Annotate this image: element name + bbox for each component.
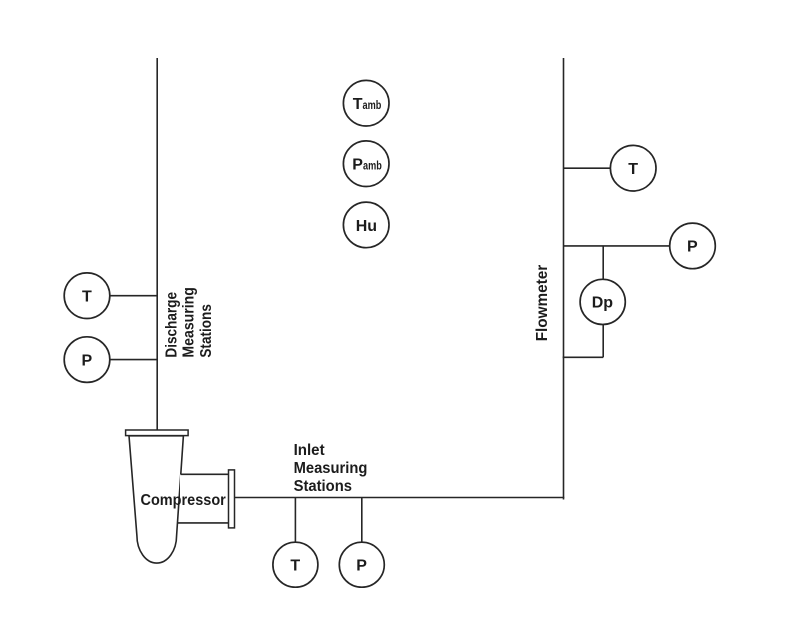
label Inlet Measuring Stations — [294, 442, 368, 495]
svg-text:P: P — [687, 239, 698, 256]
svg-text:Measuring: Measuring — [294, 460, 368, 477]
label Discharge Measuring Stations (rotated) — [163, 287, 215, 358]
wire: inlet pipe (bottom horizontal) — [235, 497, 565, 499]
wire: riser pipe (right vertical) — [563, 58, 565, 500]
svg-text:Measuring: Measuring — [181, 287, 198, 358]
wire: T to discharge pipe — [109, 295, 157, 297]
compressor inlet flange (top) — [126, 430, 189, 436]
svg-text:Stations: Stations — [294, 478, 352, 495]
svg-text:Inlet: Inlet — [294, 442, 326, 459]
wire: Dp lower lead (vertical) — [602, 325, 604, 358]
svg-text:P: P — [82, 352, 93, 369]
svg-text:Dp: Dp — [592, 295, 614, 312]
wire: Dp upper tap (vertical drop) — [602, 246, 604, 279]
instrument Pamb (ambient pressure) — [343, 141, 389, 187]
instrument Dp (differential pressure) — [580, 279, 625, 324]
svg-text:T: T — [628, 161, 638, 178]
instrument P (discharge pressure) — [64, 337, 110, 383]
svg-text:T: T — [290, 558, 300, 575]
instrument T (discharge temperature) — [64, 273, 110, 319]
svg-text:P: P — [352, 157, 363, 174]
wire: inlet pipe to P (vertical) — [361, 498, 363, 543]
instrument T (flowmeter temperature) — [610, 145, 656, 191]
instrument P (flowmeter pressure) — [670, 223, 716, 269]
svg-text:T: T — [353, 96, 363, 113]
svg-text:Flowmeter: Flowmeter — [534, 265, 551, 342]
svg-text:Hu: Hu — [356, 218, 377, 235]
wire: discharge pipe (left vertical) — [156, 58, 158, 431]
svg-text:T: T — [82, 289, 92, 306]
wire: riser to P (flowmeter pressure tap) — [564, 245, 670, 247]
wire: inlet pipe to T (vertical) — [294, 498, 296, 543]
svg-text:amb: amb — [363, 159, 382, 173]
compressor outlet flange — [229, 470, 235, 528]
instrument T (inlet temperature) — [273, 542, 318, 587]
instrument P (inlet pressure) — [339, 542, 384, 587]
compressor body (cone with rounded bottom) — [129, 436, 183, 563]
svg-text:Compressor: Compressor — [141, 492, 226, 509]
svg-text:Stations: Stations — [198, 304, 215, 358]
svg-text:amb: amb — [363, 98, 382, 112]
instrument Hu (humidity) — [343, 202, 389, 248]
svg-text:Discharge: Discharge — [163, 292, 180, 358]
compressor outlet duct — [180, 474, 229, 523]
wire: P to discharge pipe — [109, 359, 157, 361]
svg-text:P: P — [356, 558, 367, 575]
instrument Tamb (ambient temperature) — [343, 80, 389, 126]
wire: riser to T (flowmeter temperature tap) — [564, 167, 611, 169]
wire: Dp lower tap (horizontal to riser) — [563, 356, 604, 358]
